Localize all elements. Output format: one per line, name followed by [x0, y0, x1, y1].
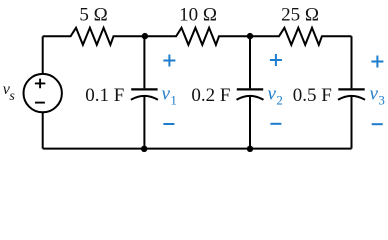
- svg-text:v: v: [162, 84, 171, 105]
- svg-text:2: 2: [276, 92, 283, 107]
- svg-text:s: s: [9, 89, 15, 104]
- svg-text:3: 3: [378, 92, 385, 107]
- svg-text:5 Ω: 5 Ω: [79, 5, 107, 26]
- svg-text:v: v: [370, 84, 379, 105]
- svg-text:v: v: [268, 84, 277, 105]
- svg-text:25 Ω: 25 Ω: [281, 5, 319, 26]
- svg-text:0.2 F: 0.2 F: [191, 85, 230, 106]
- svg-text:0.1 F: 0.1 F: [85, 85, 124, 106]
- svg-text:0.5 F: 0.5 F: [293, 85, 332, 106]
- svg-text:10 Ω: 10 Ω: [179, 5, 217, 26]
- svg-text:1: 1: [170, 92, 177, 107]
